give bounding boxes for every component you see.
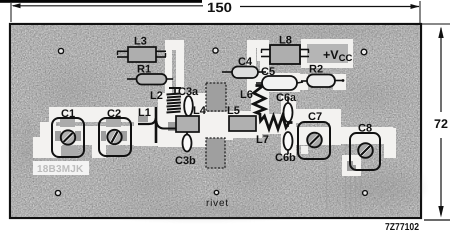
node VCC pad frame bbox=[301, 39, 353, 68]
svg-text:C3a: C3a bbox=[178, 86, 199, 98]
svg-text:C7: C7 bbox=[308, 111, 322, 123]
faint diagonal hatch bottom right bbox=[365, 180, 418, 214]
svg-text:L3: L3 bbox=[134, 36, 147, 48]
hole bottom-right bbox=[363, 191, 368, 196]
wire: centre band to L5 bbox=[205, 112, 233, 140]
faint vertical streaks bbox=[326, 130, 361, 214]
svg-text:L6: L6 bbox=[240, 89, 253, 101]
trimmer C1 bbox=[52, 108, 84, 157]
inductor L5 bbox=[227, 105, 256, 131]
capacitor C4 bbox=[222, 56, 266, 78]
wire: pad square below C8 bbox=[342, 155, 361, 176]
wire: input band at C1 C2 bbox=[49, 107, 163, 122]
svg-text:02 0E: 02 0E bbox=[13, 119, 32, 126]
dimension 150 top bar bbox=[0, 0, 202, 3]
ghost rivet ring bbox=[232, 152, 254, 174]
wire: trimmer mid band C1 C2 bbox=[43, 126, 135, 145]
svg-text:C8: C8 bbox=[358, 123, 372, 135]
svg-text:C1: C1 bbox=[61, 108, 75, 120]
svg-text:L1: L1 bbox=[138, 107, 151, 119]
inductor L4 bbox=[176, 105, 207, 136]
svg-text:R2: R2 bbox=[309, 64, 323, 76]
capacitor C3b bbox=[175, 135, 196, 168]
svg-text:C2: C2 bbox=[107, 108, 121, 120]
hole top-middle bbox=[213, 48, 218, 53]
svg-text:18B3MJK: 18B3MJK bbox=[37, 164, 84, 175]
wire: loop left arm to C4 bbox=[247, 44, 256, 94]
trimmer C7 bbox=[298, 111, 330, 159]
svg-text:L8: L8 bbox=[279, 35, 292, 47]
wire: band through C7 bbox=[287, 127, 341, 145]
wire: pad at L8 pins bbox=[257, 44, 271, 61]
wire: pad left of R2 bbox=[296, 74, 308, 90]
wire: band at C5 bbox=[256, 73, 300, 92]
svg-text:7Z77102: 7Z77102 bbox=[385, 222, 419, 233]
dithered pad block upper bbox=[206, 83, 226, 111]
wire: white dots inside C7 C8 bbox=[301, 146, 360, 165]
wire: patch at L7 bbox=[256, 114, 295, 134]
svg-text:L4: L4 bbox=[193, 105, 207, 117]
resistor R2 bbox=[301, 64, 344, 88]
inductor L6 zigzag bbox=[240, 86, 265, 117]
trimmer C8 bbox=[350, 123, 380, 171]
wire: band C7 to C8 bbox=[333, 127, 393, 144]
wire: input stair lower step bbox=[33, 137, 50, 158]
svg-text:60: 60 bbox=[22, 151, 30, 158]
wire: pad below C1 bbox=[44, 145, 62, 158]
wire: strip at C6a C6b bbox=[281, 96, 296, 156]
trimmer C2 bbox=[99, 108, 131, 156]
dimension 150 line bbox=[11, 1, 420, 23]
wire: band at L1 bbox=[134, 108, 164, 146]
svg-text:L7: L7 bbox=[256, 134, 269, 146]
svg-text:L2: L2 bbox=[150, 90, 163, 102]
wire: patch at L6 bbox=[251, 87, 269, 119]
svg-text:C4: C4 bbox=[238, 56, 253, 68]
wire: loop left arm at R1 bbox=[165, 45, 172, 97]
faint scratch marks top right bbox=[318, 64, 408, 76]
wire: band above C7 bbox=[291, 109, 341, 123]
wire: loop right arm to C3a bbox=[176, 45, 184, 122]
capacitor C6b bbox=[275, 132, 296, 164]
capacitor C3a bbox=[178, 86, 199, 122]
wire: centre island L2 C3a L4 bbox=[158, 93, 207, 147]
wire: pad under C8 corner bbox=[347, 161, 356, 171]
resistor R1 bbox=[127, 64, 173, 85]
wire: input stair upper step bbox=[40, 122, 56, 143]
inductor L1 hairpin bbox=[138, 107, 176, 143]
pcb board outline bbox=[5, 22, 430, 224]
rivet hole bbox=[214, 190, 218, 194]
wire: gap pads inside C1 C2 bbox=[60, 119, 125, 157]
svg-text:72: 72 bbox=[434, 117, 448, 131]
svg-text:L5: L5 bbox=[227, 105, 240, 117]
svg-text:C3b: C3b bbox=[175, 155, 196, 167]
svg-text:R1: R1 bbox=[137, 64, 151, 76]
faint board mottling bbox=[5, 22, 430, 224]
board silkscreen code 18B3MJK bbox=[33, 161, 89, 175]
faint etched digits left edge bbox=[13, 119, 32, 158]
hole top-right bbox=[361, 49, 367, 55]
hole top-left bbox=[58, 48, 63, 53]
wire: pad below C2 bbox=[92, 145, 106, 158]
dithered pad block lower bbox=[206, 138, 225, 168]
svg-text:C6a: C6a bbox=[276, 92, 297, 104]
wire: small grey pads by trimmers bbox=[55, 116, 176, 141]
svg-text:C6b: C6b bbox=[275, 152, 296, 164]
inductor L8 bbox=[261, 35, 309, 65]
hole bottom-left bbox=[55, 190, 60, 195]
capacitor C5 bbox=[256, 66, 303, 90]
wire: loop bridge at L3 bbox=[165, 40, 184, 50]
inductor L3 bbox=[117, 36, 166, 63]
capacitor C6a bbox=[276, 92, 297, 127]
wire: loop right arm to L6 bbox=[260, 44, 269, 92]
svg-text:05 20: 05 20 bbox=[13, 129, 31, 136]
dimension 72 bbox=[421, 24, 450, 220]
wire: leg right of C7 bbox=[330, 109, 341, 145]
svg-text:150: 150 bbox=[207, 0, 232, 15]
wire: pad right of R2 bbox=[333, 74, 346, 90]
svg-text:rivet: rivet bbox=[206, 198, 229, 209]
wire: band at L5 bbox=[226, 111, 262, 138]
svg-text:C5: C5 bbox=[261, 66, 275, 78]
wire: loop bridge at C4 bbox=[247, 40, 269, 48]
inductor L2 coil bbox=[150, 88, 181, 113]
wire: leg right of C8 bbox=[384, 128, 396, 158]
inductor L7 zigzag bbox=[256, 116, 293, 146]
